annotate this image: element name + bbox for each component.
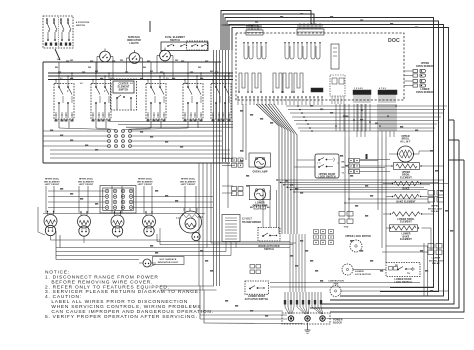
surface switch S5 terminal labels xyxy=(212,120,215,122)
relay coil group B xyxy=(285,46,289,59)
svg-text:CENTER: CENTER xyxy=(118,84,128,86)
svg-text:LEFT FRONT: LEFT FRONT xyxy=(45,184,60,186)
right edge wire 3 xyxy=(340,150,444,296)
element bus line xyxy=(43,213,205,215)
svg-text:5. VERIFY PROPER OPERATION AFT: 5. VERIFY PROPER OPERATION AFTER SERVICI… xyxy=(45,314,198,320)
surface switch S4 terminals xyxy=(184,112,186,118)
lower oven sensor plug 1 xyxy=(413,79,418,82)
power feed verticals xyxy=(284,292,286,307)
power block bolt 3 xyxy=(320,316,325,321)
surface indicator light L3 xyxy=(160,50,171,61)
surface indicator light L2 xyxy=(129,53,140,64)
svg-text:UPPER: UPPER xyxy=(431,206,439,208)
lower door lock switch dashed box xyxy=(386,263,420,277)
surface element E4 (element circle) xyxy=(143,215,156,228)
svg-text:HF/HR DUAL: HF/HR DUAL xyxy=(138,178,153,181)
svg-text:LOWER: LOWER xyxy=(420,89,429,91)
connector grid wires left xyxy=(43,130,108,132)
svg-text:BK: BK xyxy=(210,71,214,73)
surface switch S4 contacts xyxy=(187,86,189,88)
hot surface label arrow xyxy=(151,265,156,267)
oven thermal boxes xyxy=(339,212,345,217)
lower door lock switch contacts xyxy=(397,269,399,271)
svg-text:6 7 8 9: 6 7 8 9 xyxy=(379,88,387,90)
dashed relay pins xyxy=(331,96,333,104)
wire crossing row upper 2 xyxy=(118,124,233,126)
svg-text:ELEMENT: ELEMENT xyxy=(118,87,130,89)
wire crossing row upper 1 xyxy=(110,121,233,123)
svg-text:LEFT FRONT: LEFT FRONT xyxy=(181,184,196,186)
wire trans drop xyxy=(227,163,229,208)
svg-text:SWITCH: SWITCH xyxy=(264,249,274,251)
harness fan wire F7 xyxy=(298,127,435,129)
surface element E2 (element circle) xyxy=(78,215,91,228)
wire door sw drops xyxy=(289,234,291,292)
bundle to bottom xyxy=(213,162,215,286)
surface switch S1 contacts xyxy=(58,86,60,88)
upper broil rosette xyxy=(398,146,414,162)
power left feeds xyxy=(200,310,283,312)
svg-text:LOCK SWITCH: LOCK SWITCH xyxy=(318,177,336,179)
surface element E2 (receptacle circle) xyxy=(79,226,89,236)
svg-text:BK: BK xyxy=(143,67,147,69)
surface switch S3 feed drops xyxy=(150,62,152,87)
dual surface element E5 receptacle xyxy=(192,232,200,240)
lock switch connectors col1 xyxy=(349,159,354,163)
svg-text:DOOR LOCK: DOOR LOCK xyxy=(429,260,444,262)
DOC dark strip K2 xyxy=(353,90,371,95)
lower door lock switch connectors xyxy=(389,267,393,271)
svg-text:LEFT FRONT: LEFT FRONT xyxy=(79,184,94,186)
wire top feed to lights xyxy=(149,21,151,32)
upper broil element box xyxy=(394,163,420,170)
power block dashed box xyxy=(282,313,330,324)
upper oven sensor plug 1 xyxy=(413,69,418,72)
relay channel group row2 xyxy=(239,73,248,93)
elements to center wires xyxy=(156,234,158,242)
hot surface indicator light xyxy=(143,259,151,267)
door switch connector pair 1 xyxy=(250,265,255,269)
right edge wire 2 xyxy=(380,130,439,292)
svg-text:HOT SURFACE: HOT SURFACE xyxy=(160,258,177,261)
left feed verticals xyxy=(199,286,201,319)
svg-text:CONVECTION: CONVECTION xyxy=(328,281,344,283)
harness bundle wire V4 xyxy=(222,50,224,162)
harness fan wire F2 xyxy=(288,109,445,111)
svg-text:RELAY: RELAY xyxy=(431,210,439,213)
lower oven lamp connectors xyxy=(232,187,237,191)
wire lights bus xyxy=(60,61,221,63)
harness fan wire F8 xyxy=(300,130,433,132)
svg-text:1 2 3 4 5: 1 2 3 4 5 xyxy=(354,87,363,90)
surface element E1 (receptacle circle) xyxy=(45,225,55,235)
detail box terminals xyxy=(45,43,47,46)
svg-text:ELEMENT: ELEMENT xyxy=(400,239,412,241)
surface switch S2 (dashed box) xyxy=(91,84,111,120)
DOC pin row dots xyxy=(237,96,238,97)
DOC dark strip K3 xyxy=(378,90,397,95)
lower oven lamp box xyxy=(249,186,270,200)
wire crossing row B xyxy=(50,153,230,155)
lower bake element box xyxy=(390,225,418,232)
svg-text:BAKE ELEMENT: BAKE ELEMENT xyxy=(396,200,416,203)
harness bundle wire V1 xyxy=(213,50,215,162)
lower door actuated switch dashed box xyxy=(245,281,269,294)
wire label marks xyxy=(66,61,69,63)
lamp feed wires xyxy=(222,158,233,160)
surface element E3 (receptacle circle) xyxy=(112,226,122,236)
svg-text:LEFT FRONT: LEFT FRONT xyxy=(138,184,153,186)
upper lock motor xyxy=(350,240,362,252)
right inner verticals xyxy=(423,243,425,296)
svg-text:RD: RD xyxy=(198,67,202,69)
surface switch S5 terminals xyxy=(212,112,214,118)
surface switch S1 feed drops xyxy=(58,62,60,87)
routing wire top 4 xyxy=(227,21,439,130)
element terminal grid xyxy=(105,189,109,193)
svg-text:INDICATOR LIGHT: INDICATOR LIGHT xyxy=(158,261,179,264)
svg-text:HF/HR DUAL: HF/HR DUAL xyxy=(79,178,94,181)
notice text block xyxy=(45,270,214,320)
routing wire top 2 xyxy=(223,14,314,50)
DOC electronic control dashed box xyxy=(236,33,404,100)
harness fan wire F4 xyxy=(292,116,441,118)
console connector plug grid xyxy=(108,130,111,133)
lower relay boxes xyxy=(428,244,434,249)
surface indicator light L1 xyxy=(100,51,111,62)
switch detail box (dashed) xyxy=(43,16,73,48)
harness verticals right-mid xyxy=(377,137,379,210)
dual surface element E5 (outer) xyxy=(180,211,202,233)
svg-text:BK: BK xyxy=(55,67,59,69)
wire bus 3 xyxy=(48,75,233,77)
surface switch S1 terminals xyxy=(55,112,57,118)
svg-text:RD: RD xyxy=(70,60,74,62)
lower broil element xyxy=(392,212,420,216)
right edge feed 5 xyxy=(449,119,454,121)
svg-text:DOOR LOCK: DOOR LOCK xyxy=(428,208,443,210)
surface switch S1 (dashed box) xyxy=(54,84,74,120)
svg-text:WB ELEMENT: WB ELEMENT xyxy=(78,181,94,183)
12 volt transformer box xyxy=(222,215,240,242)
harness fan wire F6 xyxy=(296,123,437,125)
harness bundle wire V3 xyxy=(219,50,221,162)
surface switch S4 terminal labels xyxy=(184,120,187,122)
convection fan motor xyxy=(330,286,341,297)
lower bus left drops xyxy=(55,231,57,260)
svg-text:UPPER DOOR: UPPER DOOR xyxy=(319,174,336,176)
svg-text:BAKE: BAKE xyxy=(403,188,410,191)
surface switch S2 terminals xyxy=(92,112,94,118)
wire stub left xyxy=(43,61,60,63)
element terminal grid inner box xyxy=(103,188,134,211)
lock switch left feed wires xyxy=(297,159,315,161)
wire power to right xyxy=(327,318,465,320)
surface element E1 (element circle) xyxy=(44,215,57,228)
DOC dark strip K1 xyxy=(311,88,323,92)
lower oven sensor plug 2 xyxy=(413,84,418,87)
svg-text:BK: BK xyxy=(341,162,345,164)
svg-text:RD: RD xyxy=(175,60,179,62)
upper oven lamp box xyxy=(249,153,271,167)
wire lamp drop 1 xyxy=(242,104,244,152)
routing wire top 6 xyxy=(232,28,449,171)
detail switch contact 3 xyxy=(60,18,62,23)
harness fan wire F1 xyxy=(286,105,447,107)
svg-text:BROIL: BROIL xyxy=(402,139,410,141)
lower lock motor xyxy=(342,264,353,275)
fan verticals from DOC pins xyxy=(335,104,337,131)
lower oven lamp xyxy=(255,189,266,200)
relay coil stubs A xyxy=(243,42,245,46)
terminal grid right wires xyxy=(133,196,213,198)
dual surface element E5 (inner) xyxy=(185,218,196,229)
right edge wire 6 xyxy=(310,140,459,308)
left feed horiz from console xyxy=(160,285,200,287)
detail switch contact 1 xyxy=(46,18,48,23)
svg-text:OVEN SENSOR: OVEN SENSOR xyxy=(416,92,434,94)
svg-text:HF/HR DUAL: HF/HR DUAL xyxy=(181,178,196,181)
svg-text:UPPER: UPPER xyxy=(401,136,410,138)
relay coil group A xyxy=(244,46,248,59)
lamp harness connector pair xyxy=(254,205,259,209)
wires door lock row xyxy=(360,159,390,161)
power block bolt 2 xyxy=(305,316,310,321)
wire bus 4 xyxy=(48,79,233,81)
wires into P1 xyxy=(221,25,249,30)
element feed verticals xyxy=(45,186,47,213)
console drop verticals xyxy=(198,163,200,286)
dual element switch contacts xyxy=(167,45,169,47)
harness bundle wire V2 xyxy=(216,50,218,162)
upper door lock switch contacts xyxy=(318,159,320,161)
surface element E3 (element circle) xyxy=(111,215,124,228)
surface switch S5 feed drops xyxy=(215,62,217,87)
surface switch S3 terminal labels xyxy=(147,120,150,122)
svg-text:WB ELEMENT: WB ELEMENT xyxy=(44,181,60,183)
svg-text:LIGHTS: LIGHTS xyxy=(129,42,139,45)
wire right bottom runs xyxy=(270,286,433,288)
power feed labels xyxy=(284,300,286,305)
detail switch contact 4 xyxy=(67,18,69,23)
lower bake element xyxy=(392,226,416,230)
svg-text:4 POSITION: 4 POSITION xyxy=(76,21,90,24)
lock switch connector wires right xyxy=(360,160,379,162)
center element switch label box xyxy=(113,81,134,93)
svg-text:BROIL: BROIL xyxy=(402,175,410,177)
routing wire top 3 xyxy=(225,18,434,111)
wires into P2 xyxy=(299,23,301,29)
svg-text:LOWER DOOR: LOWER DOOR xyxy=(394,279,411,281)
surface switch S5 contacts xyxy=(215,86,217,88)
surface switch S3 contacts xyxy=(150,86,152,88)
right edge wire 7 xyxy=(330,160,464,312)
element terminal grid outer box xyxy=(100,186,136,214)
wire crossing row upper 3 xyxy=(126,126,233,128)
element left feed wires xyxy=(383,165,392,167)
detail switch contact 2 xyxy=(53,18,55,23)
svg-text:LOWER DOOR: LOWER DOOR xyxy=(248,296,265,298)
svg-text:ELEMENT: ELEMENT xyxy=(400,177,412,179)
svg-text:12 VOLT: 12 VOLT xyxy=(242,219,252,221)
transformer pins xyxy=(225,242,227,252)
svg-text:BK: BK xyxy=(250,207,254,209)
svg-text:DOOR ACTUATED: DOOR ACTUATED xyxy=(258,245,279,248)
svg-text:RD: RD xyxy=(341,167,345,169)
surface element E4 (receptacle circle) xyxy=(144,226,154,236)
surface switch S2 contacts xyxy=(95,86,97,88)
door switch connector pair 2 xyxy=(250,270,255,274)
svg-text:WB ELEMENT: WB ELEMENT xyxy=(180,181,196,183)
power block bolt 1 xyxy=(288,316,293,321)
surface switch S4 feed drops xyxy=(187,62,189,87)
svg-text:RD: RD xyxy=(88,67,92,69)
upper oven sensor plug 2 xyxy=(413,74,418,77)
upper door lock switch box xyxy=(315,154,339,178)
upper broil element xyxy=(396,164,417,168)
element right feed wires xyxy=(421,165,444,167)
connector grid wires right xyxy=(132,130,223,132)
terminal grid left wires xyxy=(48,190,105,192)
svg-text:LOWER: LOWER xyxy=(432,258,441,260)
surface switch S2 feed drops xyxy=(95,62,97,87)
right edge wire 1 xyxy=(390,110,434,288)
right edge wire 4 xyxy=(330,170,449,300)
center element switch contacts xyxy=(116,97,118,99)
DOC right pin verticals going down xyxy=(344,104,346,137)
harness bundle wire V5 xyxy=(225,50,227,162)
sensor wires xyxy=(404,70,413,72)
upper bake element 2 xyxy=(394,194,419,198)
upper bake element 1 xyxy=(394,181,419,185)
wire lamp drop 2 xyxy=(245,104,247,160)
surface switch S3 (dashed box) xyxy=(146,84,166,120)
surface switch S5 (dashed box) xyxy=(211,84,231,120)
svg-text:SWITCH: SWITCH xyxy=(76,25,86,27)
wires from switches to connector xyxy=(58,119,60,128)
relay feed horizontals xyxy=(349,198,428,200)
svg-text:TRANSFORMER: TRANSFORMER xyxy=(242,221,261,224)
svg-text:RD: RD xyxy=(120,60,124,62)
svg-text:TYP: TYP xyxy=(176,218,181,220)
svg-text:TOD: TOD xyxy=(344,227,349,229)
lower bus 2 xyxy=(56,251,226,253)
bundle B bends to door lock area xyxy=(277,179,444,181)
detail box divider xyxy=(58,17,60,47)
dual element switch box xyxy=(161,42,208,51)
wire convection run xyxy=(341,290,448,292)
element lower connect wires xyxy=(50,236,52,240)
hot surface indicator label box xyxy=(153,257,185,265)
svg-text:LOCK SWITCH: LOCK SWITCH xyxy=(394,282,412,284)
svg-text:LOWER: LOWER xyxy=(355,271,364,273)
lock switch connectors col2 xyxy=(355,159,360,163)
right edge feed 6 xyxy=(449,139,459,141)
svg-text:BAKE: BAKE xyxy=(403,235,410,238)
wire crossing row C xyxy=(50,157,230,159)
right edge wire 5 xyxy=(320,120,454,304)
arrow from detail box xyxy=(55,49,60,60)
upper oven lamp xyxy=(255,158,266,169)
fan left verticals xyxy=(256,104,279,234)
console bottom wire xyxy=(43,162,230,164)
DOC tall relay box right xyxy=(331,44,339,69)
DOC connector strip P2 xyxy=(297,29,324,35)
DOC dashed relay block xyxy=(330,75,345,96)
harness bundle wire V6 xyxy=(228,50,230,162)
detail box inner dots xyxy=(46,19,48,21)
surface switch S3 terminals xyxy=(147,112,149,118)
routing wire top 5 xyxy=(229,25,444,151)
lock switch dark mark xyxy=(366,154,368,159)
harness fan wire F3 xyxy=(290,112,443,114)
surface switch S4 (dashed box) xyxy=(183,84,203,120)
right edge feed 7 xyxy=(449,159,464,161)
wire bus 2 xyxy=(48,72,233,74)
svg-text:LOWER: LOWER xyxy=(401,234,410,236)
door switch top feeds xyxy=(262,190,264,228)
routing wire top 1 xyxy=(221,11,311,51)
svg-text:LOCK MOTOR: LOCK MOTOR xyxy=(355,274,371,276)
lower bus 1 xyxy=(56,247,290,249)
svg-text:SWITCH: SWITCH xyxy=(170,39,180,42)
svg-text:UPPER: UPPER xyxy=(421,63,430,65)
console left edge wire xyxy=(42,62,44,163)
wire lock motor run xyxy=(353,269,386,271)
oven lamp connectors xyxy=(232,158,237,162)
svg-text:HI L.HI T: HI L.HI T xyxy=(400,141,411,143)
lower bus 4 xyxy=(56,259,139,261)
surface switch S1 terminal labels xyxy=(55,120,58,122)
upper lock motor terminals xyxy=(314,230,319,234)
center element switch outer dashed box xyxy=(111,79,137,110)
svg-text:OVEN SENSOR: OVEN SENSOR xyxy=(416,66,434,68)
svg-text:WB ELEMENT: WB ELEMENT xyxy=(137,181,153,183)
svg-text:HF/HR DUAL: HF/HR DUAL xyxy=(45,178,60,181)
K3 pins xyxy=(378,95,380,104)
svg-text:ELEMENT: ELEMENT xyxy=(400,222,412,224)
harness fan wire F5 xyxy=(294,120,439,122)
svg-text:SWITCH: SWITCH xyxy=(119,90,129,92)
power block ground xyxy=(307,323,309,331)
svg-text:UPPER: UPPER xyxy=(402,172,411,174)
surface switch S2 terminal labels xyxy=(92,120,95,122)
wire crossing row A xyxy=(50,149,230,151)
harness bundle wire V7 xyxy=(231,50,233,162)
svg-text:LOWER BROIL: LOWER BROIL xyxy=(397,219,415,221)
upper relay small boxes xyxy=(428,191,435,196)
door actuated switch dashed box xyxy=(258,228,280,242)
svg-text:OVEN LAMP: OVEN LAMP xyxy=(252,171,267,174)
svg-text:RELAY: RELAY xyxy=(432,262,440,265)
DOC connector strip P1 xyxy=(246,30,263,35)
svg-text:UPPER LOCK MOTOR: UPPER LOCK MOTOR xyxy=(345,236,371,238)
svg-text:ACTUATED SWITCH: ACTUATED SWITCH xyxy=(245,298,269,301)
K2 pins xyxy=(353,95,355,104)
power feed converge xyxy=(285,307,294,314)
svg-text:DOC: DOC xyxy=(388,38,400,44)
svg-text:BLOCK: BLOCK xyxy=(333,322,342,325)
lower bus 3 xyxy=(56,255,231,257)
